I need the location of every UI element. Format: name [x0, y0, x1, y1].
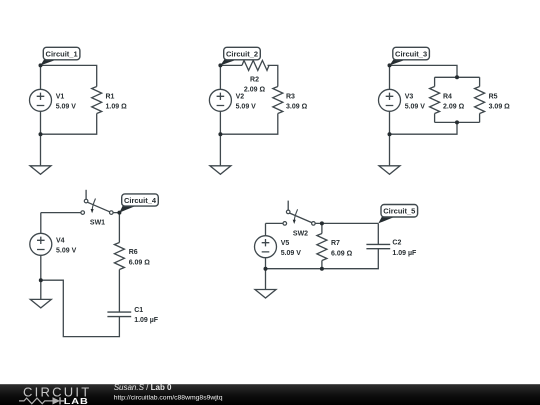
svg-text:5.09 V: 5.09 V [56, 104, 77, 111]
svg-text:5.09 V: 5.09 V [281, 250, 302, 257]
svg-text:2.09 Ω: 2.09 Ω [244, 87, 266, 94]
svg-text:5.09 V: 5.09 V [236, 104, 257, 111]
svg-text:R1: R1 [106, 94, 115, 101]
svg-text:V3: V3 [405, 94, 414, 101]
svg-text:R3: R3 [286, 94, 295, 101]
svg-text:R5: R5 [489, 94, 498, 101]
svg-text:Circuit_5: Circuit_5 [383, 207, 415, 216]
svg-text:6.09 Ω: 6.09 Ω [331, 250, 353, 257]
svg-text:Susan.S / Lab 0: Susan.S / Lab 0 [114, 383, 172, 392]
svg-text:5.09 V: 5.09 V [56, 248, 77, 255]
svg-text:C2: C2 [392, 240, 401, 247]
svg-text:V1: V1 [56, 94, 65, 101]
svg-text:C1: C1 [134, 307, 143, 314]
svg-text:LAB: LAB [64, 397, 89, 405]
svg-text:2.09 Ω: 2.09 Ω [443, 104, 465, 111]
svg-text:V4: V4 [56, 238, 65, 245]
svg-text:6.09 Ω: 6.09 Ω [129, 259, 151, 266]
svg-text:V5: V5 [281, 240, 290, 247]
svg-text:1.09 Ω: 1.09 Ω [106, 104, 128, 111]
svg-text:Circuit_1: Circuit_1 [46, 50, 78, 59]
svg-text:3.09 Ω: 3.09 Ω [286, 104, 308, 111]
svg-text:Circuit_3: Circuit_3 [395, 50, 427, 59]
svg-text:http://circuitlab.com/c88wmg8s: http://circuitlab.com/c88wmg8s9wjtq [114, 394, 223, 401]
svg-text:3.09 Ω: 3.09 Ω [489, 104, 511, 111]
svg-text:R6: R6 [129, 249, 138, 256]
svg-text:R2: R2 [250, 77, 259, 84]
svg-text:1.09 µF: 1.09 µF [134, 317, 159, 324]
svg-text:SW2: SW2 [293, 231, 308, 238]
svg-text:5.09 V: 5.09 V [405, 104, 426, 111]
svg-text:R4: R4 [443, 94, 452, 101]
svg-text:V2: V2 [236, 94, 245, 101]
svg-text:Circuit_2: Circuit_2 [226, 50, 258, 59]
svg-text:SW1: SW1 [90, 220, 105, 227]
svg-text:Circuit_4: Circuit_4 [124, 196, 157, 205]
svg-text:1.09 µF: 1.09 µF [392, 250, 417, 257]
svg-text:R7: R7 [331, 240, 340, 247]
